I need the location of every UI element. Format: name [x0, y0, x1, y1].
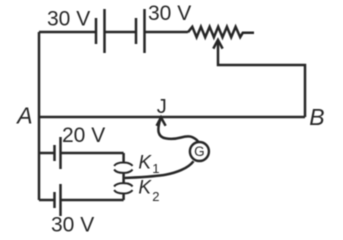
svg-text:30 V: 30 V: [47, 8, 90, 31]
svg-text:K: K: [138, 153, 152, 174]
svg-text:20 V: 20 V: [62, 124, 105, 147]
svg-text:30 V: 30 V: [51, 213, 94, 236]
svg-text:G: G: [194, 144, 205, 159]
svg-text:30 V: 30 V: [148, 2, 191, 25]
svg-text:1: 1: [152, 161, 159, 176]
svg-text:J: J: [157, 96, 167, 118]
svg-text:B: B: [309, 104, 324, 130]
svg-text:K: K: [138, 178, 152, 199]
svg-text:A: A: [15, 103, 32, 129]
svg-text:2: 2: [152, 189, 159, 204]
